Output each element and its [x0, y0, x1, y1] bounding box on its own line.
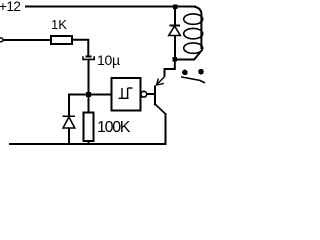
flyback diode D2 triangle (anode, pointing up): [169, 26, 181, 36]
zener diode D1 cathode bar: [63, 115, 75, 117]
wire: rail shoulder into coil: [194, 7, 202, 50]
relay coil L1 loop 1: [184, 14, 203, 24]
wire: node C down to resistor R2: [87, 95, 89, 113]
wire: node B down and to transistor emitter: [165, 61, 175, 77]
wire: bubble to transistor base: [147, 93, 155, 95]
flyback diode D2 cathode bar: [169, 25, 179, 27]
relay coil L1 loop 3: [184, 43, 203, 53]
relay coil L1 loop 2: [184, 28, 203, 38]
wire: coil exit diagonal to node B: [177, 50, 202, 60]
zener diode D1 triangle (pointing up): [63, 117, 75, 128]
100K label: [97, 119, 129, 137]
schmitt trigger U1 box: [111, 78, 140, 111]
+12 label: [0, 0, 20, 14]
10µ label: [97, 52, 120, 68]
node A junction on +12 rail: [173, 5, 178, 10]
transistor Q1 collector diagonal: [156, 105, 166, 115]
wire: input terminal to resistor R1: [4, 39, 51, 41]
wire: R1 to capacitor corner: [72, 40, 88, 56]
relay contact fixed dot 2: [198, 69, 204, 75]
flyback diode D2 lead from node A: [174, 7, 176, 25]
wire: collector down to ground rail: [165, 113, 167, 145]
capacitor C1 top plate (positive): [86, 56, 92, 58]
wire: node C left arm to zener branch: [69, 95, 88, 117]
resistor R2 100K body: [83, 112, 93, 141]
+12 input terminal circle: [0, 38, 3, 42]
relay contact fixed dot 1: [182, 70, 188, 76]
node B junction (coil bottom / diode / emitter): [173, 57, 178, 62]
wire: R2 bottom lead to ground rail: [87, 141, 89, 144]
transistor Q1 base bar: [154, 86, 156, 106]
ground rail wire: [9, 143, 166, 145]
resistor R1 1K body: [51, 36, 72, 44]
relay contact movable arm: [181, 77, 205, 83]
flyback diode D2 lead to node B: [174, 36, 176, 59]
1K label: [51, 17, 67, 32]
schmitt trigger U1 hysteresis symbol: [119, 88, 133, 98]
+12 supply rail wire: [25, 6, 196, 8]
transistor Q1 emitter (arrow toward base, PNP): [156, 77, 165, 86]
capacitor C1 bottom plate (cup): [83, 56, 94, 59]
wire: node C to schmitt trigger input: [88, 93, 111, 95]
zener diode D1 lead to ground rail: [68, 128, 70, 144]
schmitt trigger U1 output inverter bubble: [141, 91, 147, 97]
wire: capacitor to node C: [87, 59, 89, 95]
node C junction (cap / 100K / zener / schmitt input): [86, 92, 91, 97]
